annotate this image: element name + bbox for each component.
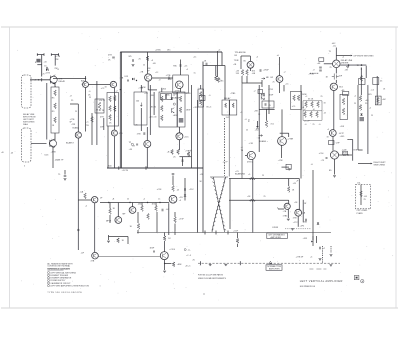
resistor strip box: [51, 87, 59, 133]
svg-text:+C5: +C5: [292, 106, 297, 108]
wire: [137, 212, 139, 223]
wire: [376, 76, 378, 105]
svg-text:C9F: C9F: [336, 143, 341, 145]
junction: [129, 202, 130, 203]
wire: [297, 216, 299, 227]
svg-text:+1TB: +1TB: [45, 72, 51, 74]
wire: [117, 203, 119, 217]
svg-text:+2: +2: [116, 91, 118, 93]
transistor Q124: [110, 81, 116, 87]
ground ground: [288, 169, 291, 171]
transistor ring Q102: [49, 140, 56, 147]
svg-text:+5: +5: [369, 108, 371, 110]
svg-text:25: 25: [127, 199, 129, 201]
wire top rail +225V: [120, 51, 222, 53]
wire: [312, 170, 314, 240]
wire dashed: [322, 246, 324, 263]
svg-text:4TB: 4TB: [119, 133, 123, 135]
transistor Q144: [247, 61, 254, 68]
svg-text:25: 25: [43, 74, 45, 76]
svg-text:+2TB: +2TB: [55, 56, 61, 58]
svg-text:m: m: [100, 286, 102, 288]
junction: [38, 79, 39, 80]
ground ground G4: [291, 229, 294, 231]
wire: [174, 212, 176, 217]
diode D190: [184, 195, 186, 197]
wire: [249, 56, 251, 61]
svg-text:25: 25: [262, 175, 264, 177]
capacitor C240: [306, 219, 307, 222]
wire: [242, 82, 262, 84]
svg-text:+1F5: +1F5: [303, 238, 309, 240]
page left edge: [9, 27, 11, 308]
wire: [335, 68, 337, 74]
svg-text:1TB5: 1TB5: [283, 215, 289, 217]
resistor R172: [359, 96, 362, 102]
svg-text:+2TB5: +2TB5: [155, 50, 161, 52]
wire rail x197: [197, 100, 199, 233]
wire: [182, 157, 184, 166]
resistor R173: [359, 105, 362, 111]
wire rail y232: [137, 232, 331, 234]
transistor Q322 arrow: [172, 108, 175, 113]
svg-text:4TB: 4TB: [108, 55, 112, 57]
tick: [50, 53, 52, 56]
resistor R250: [163, 236, 166, 241]
node ring: [184, 249, 186, 251]
wire: [54, 55, 56, 66]
capacitor C191: [162, 209, 163, 212]
transistor Q335: [144, 141, 151, 148]
svg-text:+48: +48: [317, 63, 321, 65]
transistor Q157: [330, 83, 337, 90]
resistor R171: [342, 108, 345, 115]
diode D101: [46, 69, 48, 71]
wire: [302, 200, 304, 223]
wire: [324, 63, 333, 65]
box T2: [167, 94, 172, 100]
svg-text:AMPLIFIER: AMPLIFIER: [269, 268, 280, 271]
svg-text:+5: +5: [89, 91, 91, 93]
transistor Q134: [176, 81, 184, 89]
svg-text:1K: 1K: [105, 87, 108, 89]
svg-text:AMPLIFIER: AMPLIFIER: [271, 236, 282, 239]
svg-text:4TB: 4TB: [91, 261, 95, 263]
wire: [217, 51, 219, 66]
junction on bus: [120, 89, 121, 90]
svg-text:+15F: +15F: [340, 126, 345, 128]
wire: [365, 66, 367, 78]
svg-text:FOR SN 101-UP SEE PARTS: FOR SN 101-UP SEE PARTS: [198, 274, 224, 277]
wire: [268, 85, 270, 114]
svg-text:U13: U13: [125, 76, 130, 78]
wire: [224, 66, 226, 101]
svg-text:25: 25: [321, 96, 323, 98]
svg-text:+5A: +5A: [80, 191, 84, 194]
svg-text:25: 25: [354, 103, 356, 105]
svg-text:+C5F: +C5F: [278, 160, 284, 162]
svg-text:+C85: +C85: [249, 143, 253, 145]
svg-text:+B: +B: [11, 153, 14, 155]
svg-text:16: 16: [44, 65, 47, 67]
transistor Q350 emitter: [261, 93, 264, 100]
resistor R330: [171, 150, 174, 155]
svg-text:BLANK: BLANK: [173, 97, 180, 100]
svg-text:+1K: +1K: [129, 149, 133, 151]
wire: [153, 92, 155, 115]
wire rail y178: [229, 178, 299, 180]
wire: [127, 237, 129, 245]
component box E: [291, 91, 302, 109]
svg-text:+B +5: +B +5: [185, 265, 191, 267]
svg-text:C5L: C5L: [357, 183, 362, 185]
svg-text:B#4: B#4: [339, 87, 343, 89]
tick: [77, 229, 79, 232]
tick: [215, 231, 217, 235]
scan noise speckle: [15, 30, 393, 300]
resistor R201: [174, 217, 177, 223]
svg-text:+BC: +BC: [382, 99, 387, 101]
svg-text:+2TB: +2TB: [166, 75, 172, 77]
resistor R326: [179, 107, 182, 113]
junction: [159, 202, 160, 203]
svg-text:2TB: 2TB: [137, 134, 141, 136]
svg-text:-TRIG: -TRIG: [309, 74, 315, 76]
ground ground G3: [287, 219, 290, 221]
transistor Q194: [169, 195, 177, 203]
resistor R210: [225, 103, 227, 108]
resistor R313: [114, 96, 117, 101]
junction: [348, 64, 349, 65]
svg-text:BLANKING: BLANKING: [235, 173, 246, 176]
wire: [108, 235, 110, 240]
ground ground G8: [329, 265, 332, 267]
svg-text:25: 25: [380, 81, 383, 83]
resistor R354: [293, 95, 296, 101]
svg-text:DIAG: DIAG: [23, 123, 28, 126]
svg-text:MF: MF: [123, 214, 127, 216]
wire: [303, 110, 322, 112]
resistor R220: [250, 177, 256, 179]
legend ref 6: [47, 285, 49, 287]
svg-text:+9B: +9B: [254, 111, 258, 113]
wire long interconnect: [98, 256, 160, 258]
ground ground below Q174: [333, 176, 336, 178]
svg-text:25: 25: [71, 100, 74, 102]
wire long column x242: [241, 83, 243, 179]
capacitor C142: [264, 93, 265, 96]
svg-text:SIG: SIG: [249, 118, 251, 122]
svg-text:R9: R9: [52, 111, 55, 113]
wire stub: [51, 54, 58, 56]
transistor Q102: [50, 139, 55, 147]
svg-text:+C5 B: +C5 B: [169, 249, 175, 251]
resistor R310: [109, 96, 112, 102]
attenuator box A: [107, 93, 119, 127]
resistor R180: [84, 193, 87, 199]
svg-text:TP5 ANODE: TP5 ANODE: [235, 51, 247, 54]
legend ref 5: [47, 282, 49, 284]
wire: [215, 66, 217, 77]
wire trigger rail dashed: [198, 262, 340, 264]
svg-text:TYPE 556 OSCILLOSCOPE: TYPE 556 OSCILLOSCOPE: [47, 292, 82, 294]
tick: [118, 166, 120, 169]
svg-text:1K TB: 1K TB: [99, 110, 105, 112]
svg-text:+2/5: +2/5: [179, 197, 184, 199]
svg-text:+C5F: +C5F: [233, 231, 239, 233]
dashed CRT plate box: [356, 185, 371, 209]
svg-text:USED IN SOME INSTRUMENTS: USED IN SOME INSTRUMENTS: [198, 278, 227, 280]
svg-text:47R: 47R: [72, 124, 76, 126]
svg-text:1K: 1K: [326, 77, 329, 79]
junction node A: [85, 78, 86, 79]
svg-text:1K: 1K: [327, 137, 330, 139]
resistor R161: [311, 102, 314, 108]
wire: [278, 208, 284, 210]
wire: [54, 133, 56, 140]
capacitor C350: [265, 103, 266, 106]
wire: [352, 140, 354, 161]
arrow down: [311, 241, 313, 243]
svg-text:1C: 1C: [194, 73, 197, 75]
svg-text:+F: +F: [296, 181, 299, 183]
arrow in box B: [140, 103, 142, 107]
wire to right vert: [358, 163, 371, 165]
svg-text:+C5: +C5: [235, 171, 240, 173]
ground ground below Q255: [163, 271, 166, 273]
resistor R325: [179, 96, 182, 102]
wire: [217, 66, 219, 78]
spot: [204, 294, 205, 295]
wire: [52, 147, 54, 168]
wire: [174, 224, 176, 236]
legend ref 4: [47, 279, 49, 281]
svg-text:TB5: TB5: [173, 66, 178, 68]
resistor R222: [287, 187, 290, 193]
box dark input: [36, 59, 40, 63]
svg-text:1K5: 1K5: [368, 94, 372, 96]
svg-text:+2TB 5F: +2TB 5F: [296, 257, 305, 259]
resistor R106: [54, 103, 57, 109]
wire: [237, 233, 239, 239]
svg-text:+B: +B: [112, 199, 115, 201]
resistor R211: [232, 103, 234, 108]
shield box Q134: [173, 75, 189, 93]
resistor R121: [146, 56, 149, 61]
wire: [161, 88, 163, 92]
svg-text:+5: +5: [218, 50, 221, 52]
wire: [103, 118, 105, 130]
svg-text:+2C: +2C: [193, 57, 197, 59]
svg-text:+C8: +C8: [144, 93, 149, 95]
svg-text:25: 25: [136, 125, 138, 127]
wire: [249, 68, 251, 71]
wire: [310, 72, 319, 74]
junction: [147, 202, 148, 203]
capacitor C122: [128, 80, 129, 82]
transistor Q164: [329, 130, 336, 137]
ground ground G5: [330, 255, 333, 257]
svg-text:SWITCHING: SWITCHING: [374, 165, 386, 167]
svg-text:+C: +C: [86, 122, 89, 124]
svg-text:+3 5F: +3 5F: [179, 219, 185, 221]
svg-text:1K: 1K: [109, 123, 112, 125]
resistor R240: [360, 191, 363, 197]
wire: [146, 148, 148, 168]
svg-text:1C: 1C: [158, 199, 161, 201]
transistor ring Q101: [50, 76, 57, 83]
svg-text:+2TB9: +2TB9: [287, 139, 294, 141]
resistor R164: [310, 112, 313, 118]
wire: [303, 100, 322, 102]
svg-text:+B5: +B5: [138, 203, 143, 205]
svg-text:4TB: 4TB: [168, 79, 172, 81]
wire: [94, 203, 96, 252]
svg-text:25: 25: [89, 97, 91, 99]
transistor Q196: [129, 207, 136, 214]
wire: [281, 145, 283, 158]
wire: [180, 88, 182, 92]
wire input column: [41, 55, 43, 77]
svg-text:+5: +5: [240, 112, 243, 114]
resistor R165: [316, 112, 319, 118]
wire: [152, 77, 173, 79]
wire from connector J2: [31, 143, 47, 145]
wire: [156, 212, 158, 233]
capacitor C124: [180, 64, 181, 67]
wire column: [258, 85, 260, 152]
svg-text:25: 25: [273, 82, 275, 84]
svg-text:U13: U13: [45, 155, 50, 157]
svg-text:28: 28: [133, 145, 136, 147]
box T1: [161, 94, 166, 100]
junction: [361, 64, 362, 65]
wire rail y202: [100, 202, 169, 204]
svg-text:25F: 25F: [55, 59, 59, 61]
svg-text:+25C: +25C: [189, 189, 194, 191]
wire: [303, 119, 322, 121]
svg-text:1K5: 1K5: [152, 203, 156, 205]
wire: [141, 203, 143, 206]
svg-text:+TB: +TB: [283, 211, 287, 213]
capacitor C250: [154, 251, 155, 253]
svg-text:+B: +B: [324, 113, 327, 115]
wire: [358, 149, 363, 151]
svg-text:+300: +300: [162, 89, 167, 91]
resistor R321: [161, 106, 164, 112]
tick: [77, 229, 80, 231]
wire between Q114 Q124: [89, 84, 111, 86]
svg-text:+5: +5: [327, 129, 329, 131]
svg-text:1K: 1K: [122, 240, 125, 242]
svg-text:+9: +9: [305, 124, 307, 126]
svg-text:1K: 1K: [258, 114, 261, 116]
svg-text:+Z: +Z: [323, 248, 326, 250]
svg-text:1K: 1K: [204, 61, 207, 63]
svg-text:+1K5F: +1K5F: [263, 70, 270, 72]
svg-text:33 1K: 33 1K: [308, 99, 314, 101]
svg-text:1K5F: 1K5F: [150, 248, 156, 250]
wire corner: [221, 52, 223, 66]
box right col upper: [373, 78, 379, 85]
wire: [203, 65, 225, 67]
box T9: [286, 164, 291, 169]
transistor Q321 small: [173, 103, 175, 105]
box T3: [200, 96, 206, 101]
resistor R205: [117, 238, 120, 243]
svg-text:+6: +6: [277, 55, 280, 57]
svg-text:B#B: B#B: [354, 149, 358, 151]
svg-text:+3B5: +3B5: [165, 95, 171, 97]
svg-text:MF: MF: [266, 77, 270, 79]
component box right: [340, 94, 347, 119]
svg-text:1K: 1K: [324, 103, 327, 105]
resistor R251: [172, 262, 175, 267]
transistor Q345: [176, 133, 183, 140]
wire: [109, 203, 111, 209]
tick: [43, 53, 45, 56]
resistor R311: [109, 106, 112, 112]
wire: [96, 81, 98, 145]
transistor Q185: [92, 252, 99, 259]
transistor Q356: [247, 151, 255, 159]
svg-text:+5: +5: [310, 257, 313, 259]
wire long rail x203: [202, 62, 204, 233]
wire: [333, 91, 335, 130]
wire: [200, 85, 202, 89]
ground ground G6: [209, 264, 212, 266]
svg-text:+C5F: +C5F: [157, 189, 163, 191]
transistor Q143: [111, 130, 117, 136]
ground ground G9: [319, 259, 322, 261]
wire: [287, 209, 289, 218]
wire: [298, 179, 300, 210]
wire: [77, 104, 79, 132]
wire dashed: [330, 246, 332, 253]
attenuator box C: [159, 92, 177, 127]
svg-text:1K5 25: 1K5 25: [150, 107, 157, 109]
wire: [172, 176, 174, 186]
ground ground G7: [224, 264, 227, 266]
svg-text:+5: +5: [342, 57, 344, 59]
tick: [36, 53, 38, 56]
transistor Q123: [145, 74, 152, 81]
transistor Q336 small: [131, 143, 133, 145]
svg-text:S/N PREFIX LB: S/N PREFIX LB: [300, 286, 316, 288]
capacitor C164: [326, 157, 327, 159]
wire: [54, 86, 56, 87]
box T8: [343, 151, 348, 154]
wire: [339, 154, 352, 156]
svg-text:CONTROLS SET NORMAL: CONTROLS SET NORMAL: [47, 265, 70, 268]
wire: [70, 103, 78, 105]
svg-text:+48: +48: [365, 100, 369, 102]
transistor Q225: [295, 209, 302, 216]
tick: [239, 261, 241, 265]
svg-text:BLANKT: BLANKT: [66, 142, 75, 145]
svg-text:+2C5: +2C5: [184, 136, 190, 138]
capacitor C332: [182, 159, 183, 162]
legend ref 3: [47, 277, 49, 279]
svg-text:25: 25: [193, 260, 196, 262]
wire delay leg: [228, 115, 230, 177]
wire long left rail: [77, 138, 79, 250]
wire: [261, 80, 263, 87]
junction: [259, 137, 260, 138]
wire: [147, 52, 149, 74]
wire: [367, 85, 369, 154]
wire: [256, 121, 258, 126]
